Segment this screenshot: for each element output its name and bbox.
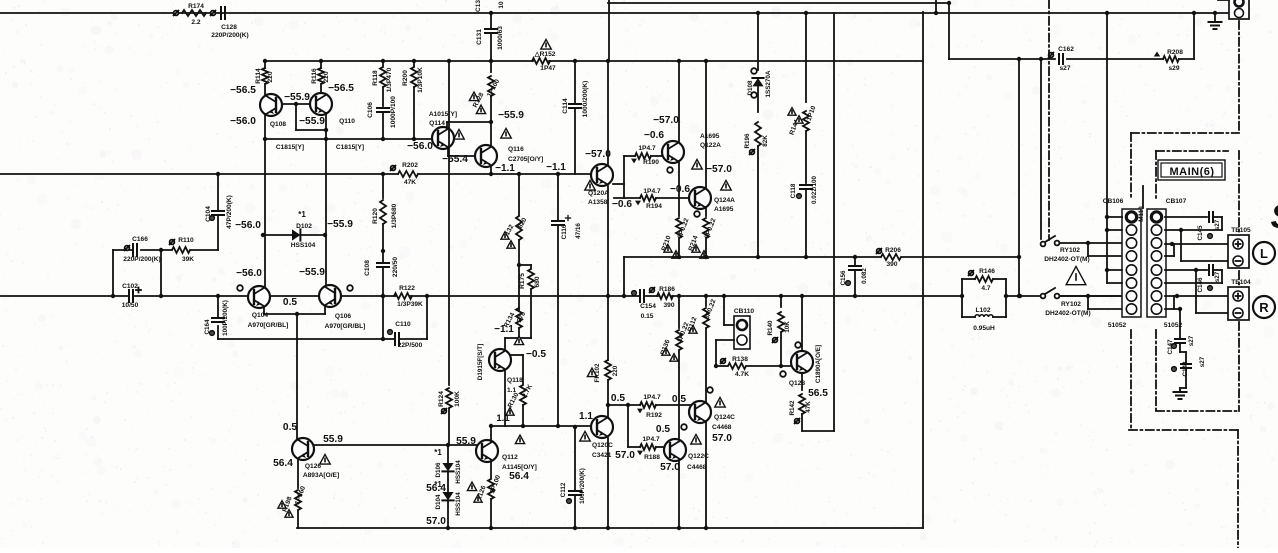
- resistor R208: [1154, 49, 1183, 72]
- wire bottom rail y528: [297, 527, 923, 529]
- label MAIN(6): [1158, 160, 1225, 180]
- transistor Q108: [260, 94, 282, 116]
- resistor R140: [767, 294, 791, 366]
- resistor R120: [372, 174, 398, 253]
- wire x806 col: [804, 11, 808, 102]
- wire r110 right drop: [159, 248, 163, 298]
- label S edge: [1271, 198, 1278, 236]
- svg-text:Q124C: Q124C: [714, 414, 735, 421]
- wire q128 collector: [800, 294, 804, 351]
- svg-text:R146: R146: [979, 268, 995, 275]
- svg-text:Q110: Q110: [339, 118, 355, 125]
- resistor R136: [660, 294, 691, 439]
- svg-text:−56.0: −56.0: [236, 268, 262, 279]
- resistor R110: [170, 237, 195, 263]
- svg-text:R118: R118: [372, 70, 379, 86]
- label -57.0 r190: [653, 115, 679, 126]
- svg-text:56.4: 56.4: [509, 471, 529, 482]
- wire mid rail y61: [265, 60, 923, 62]
- svg-text:Q124A: Q124A: [714, 197, 735, 204]
- label 57.0 r188: [615, 450, 635, 461]
- label D106: [426, 448, 462, 494]
- svg-text:R194: R194: [646, 203, 662, 210]
- svg-text:*1: *1: [298, 210, 306, 219]
- label 1.1 q120c: [579, 411, 593, 422]
- wire q120a emitter: [613, 183, 624, 185]
- terminal L circle: [1253, 242, 1275, 264]
- label -55.9 q106: [299, 267, 325, 278]
- terminal TE104: [1228, 279, 1251, 320]
- svg-text:s27: s27: [1188, 335, 1195, 346]
- node emitter bus: [263, 137, 416, 141]
- svg-text:D1915F[S/T]: D1915F[S/T]: [477, 344, 484, 380]
- marker 0 q122c: [681, 424, 687, 430]
- svg-text:A1145[O/Y]: A1145[O/Y]: [502, 464, 537, 471]
- wire cb107 pin7 row: [1165, 294, 1231, 298]
- transistor Q104: [248, 286, 270, 308]
- label -56.5 right: [328, 83, 354, 94]
- svg-text:R140: R140: [767, 320, 774, 336]
- dash boundary x1237 top: [1238, 21, 1240, 133]
- transistor Q106: [319, 285, 341, 307]
- resistor R114: [255, 59, 274, 94]
- wire riser x610 top: [608, 0, 610, 61]
- svg-text:C112: C112: [560, 482, 567, 497]
- svg-text:100K: 100K: [454, 391, 461, 407]
- relay RY102 upper: [1041, 236, 1060, 246]
- wire riser x923: [922, 12, 924, 528]
- transistor Q128: [791, 351, 813, 373]
- terminal R circle: [1253, 296, 1275, 318]
- svg-text:A893A[O/E]: A893A[O/E]: [303, 472, 339, 479]
- svg-text:390: 390: [886, 261, 897, 268]
- svg-text:HSS104: HSS104: [455, 460, 462, 484]
- capacitor C164: [204, 294, 383, 339]
- svg-text:C128: C128: [221, 24, 237, 31]
- label 1.1 q118e: [496, 413, 510, 424]
- svg-text:HSS104: HSS104: [455, 492, 462, 516]
- svg-text:−56.0: −56.0: [407, 141, 433, 152]
- marker O q106: [347, 285, 353, 291]
- svg-text:A970[GR/BL]: A970[GR/BL]: [325, 323, 366, 330]
- resistor R112: [687, 294, 718, 402]
- label Q120C: [580, 431, 613, 459]
- label -0.6 q120a: [612, 199, 632, 210]
- svg-text:−55.9: −55.9: [284, 92, 310, 103]
- wire fr102 col: [606, 186, 610, 360]
- svg-text:0.5: 0.5: [672, 394, 686, 405]
- resistor FR102: [587, 360, 619, 416]
- svg-text:0.5: 0.5: [283, 297, 297, 308]
- resistor R194: [614, 188, 689, 210]
- svg-text:C145: C145: [1197, 225, 1204, 241]
- svg-text:R122: R122: [399, 285, 415, 292]
- svg-text:Q108: Q108: [270, 121, 286, 128]
- resistor R186: [650, 286, 676, 309]
- svg-text:Q118: Q118: [507, 377, 523, 384]
- svg-text:1/3P470: 1/3P470: [386, 67, 393, 92]
- wire riser x1194: [1193, 13, 1195, 59]
- svg-text:220P/200(K): 220P/200(K): [123, 256, 160, 263]
- svg-text:D106: D106: [435, 462, 442, 478]
- svg-text:−0.6: −0.6: [670, 184, 690, 195]
- label -0.5 q118: [526, 349, 546, 360]
- resistor R192: [606, 394, 690, 419]
- connector top right: [1218, 0, 1249, 19]
- capacitor C118: [790, 175, 818, 259]
- svg-text:C131: C131: [476, 29, 483, 45]
- wire x519 column: [517, 172, 521, 215]
- capacitor C162: [1049, 46, 1075, 72]
- wire q112 collector: [489, 424, 493, 441]
- svg-text:10: 10: [498, 1, 505, 9]
- transistor Q116: [475, 145, 497, 167]
- capacitor C148: [1172, 343, 1206, 390]
- resistor R118: [372, 59, 393, 106]
- capacitor C131: [476, 11, 504, 63]
- svg-text:1SS270A: 1SS270A: [765, 70, 772, 97]
- svg-text:S: S: [1271, 198, 1278, 236]
- label 51052 left: [1108, 322, 1127, 329]
- wire c166 left drop: [111, 250, 115, 298]
- svg-text:TE104: TE104: [1231, 279, 1251, 286]
- svg-text:RY102: RY102: [1060, 247, 1080, 254]
- wire x1107 col: [1105, 11, 1109, 283]
- marker 0 q128c: [795, 342, 801, 348]
- svg-text:−57.0: −57.0: [653, 115, 679, 126]
- svg-text:−55.9: −55.9: [299, 267, 325, 278]
- wire main rail y296 left: [0, 295, 962, 297]
- label 57.0 q122c: [660, 462, 680, 473]
- transistor Q124A: [689, 187, 711, 209]
- resistor R124: [438, 59, 461, 445]
- svg-text:1/3P680: 1/3P680: [391, 203, 398, 228]
- svg-text:1P4.7: 1P4.7: [638, 145, 656, 152]
- label -1.1 right: [546, 162, 566, 173]
- svg-text:−57.0: −57.0: [706, 164, 732, 175]
- resistor R214: [688, 207, 718, 258]
- resistor R210: [661, 161, 691, 258]
- svg-text:−56.0: −56.0: [235, 220, 261, 231]
- svg-text:C156: C156: [840, 270, 847, 286]
- resistor R130: [506, 355, 534, 428]
- svg-text:57.0: 57.0: [712, 433, 732, 444]
- svg-text:1000/63: 1000/63: [497, 26, 504, 50]
- svg-text:C4468: C4468: [687, 464, 707, 471]
- label Q120A: [585, 180, 609, 206]
- svg-text:2.2: 2.2: [191, 19, 200, 26]
- label Q124A: [714, 180, 735, 213]
- label 55.9 q126: [323, 434, 343, 445]
- svg-text:A970[GR/BL]: A970[GR/BL]: [248, 322, 289, 329]
- marker 0 q124c: [707, 387, 713, 393]
- svg-text:1.1: 1.1: [579, 411, 593, 422]
- svg-text:100P/200(K): 100P/200(K): [222, 300, 229, 336]
- wire q128 loop: [802, 430, 834, 432]
- wire q124a collector: [704, 59, 708, 188]
- svg-text:A1695: A1695: [700, 133, 720, 140]
- svg-text:C13: C13: [475, 0, 482, 12]
- capacitor C106: [367, 96, 397, 139]
- resistor R134: [503, 308, 531, 338]
- svg-text:R188: R188: [644, 454, 660, 461]
- svg-text:CB106: CB106: [1103, 198, 1124, 205]
- svg-text:C154: C154: [640, 303, 656, 310]
- label -56.5 left: [230, 85, 256, 96]
- svg-text:56.4: 56.4: [273, 458, 293, 469]
- transistor Q112: [476, 440, 498, 462]
- label -0.6 r190: [644, 130, 664, 141]
- svg-text:0.95uH: 0.95uH: [973, 325, 995, 332]
- svg-text:1P4.7: 1P4.7: [642, 436, 660, 443]
- svg-text:L: L: [1260, 246, 1268, 261]
- svg-text:−0.5: −0.5: [526, 349, 546, 360]
- svg-text:Q116: Q116: [508, 146, 524, 153]
- svg-text:51052: 51052: [1108, 322, 1127, 329]
- dash box MAIN top: [1156, 150, 1228, 152]
- resistor R188: [628, 405, 664, 461]
- wire x1019 col: [1017, 57, 1021, 298]
- wire relay upper feed: [1039, 57, 1043, 239]
- svg-text:R208: R208: [1167, 49, 1183, 56]
- label RY102 lower: [1045, 301, 1090, 317]
- label Q118: [477, 336, 524, 394]
- svg-text:10/50: 10/50: [122, 302, 139, 309]
- dash box MAIN left: [1155, 151, 1157, 411]
- capacitor C104: [205, 174, 233, 250]
- marker O q104: [237, 285, 243, 291]
- wire row y426: [491, 424, 592, 428]
- ground top: [1209, 11, 1222, 29]
- wire M119: [1142, 186, 1144, 208]
- svg-text:R186: R186: [659, 286, 675, 293]
- svg-text:55.9: 55.9: [456, 436, 476, 447]
- label Q122C: [687, 434, 709, 471]
- label 0.5 r188: [656, 424, 670, 435]
- label D104: [426, 480, 477, 527]
- svg-text:1/3P39K: 1/3P39K: [397, 301, 423, 308]
- svg-text:−55.9: −55.9: [498, 110, 524, 121]
- capacitor C102: [122, 283, 141, 309]
- svg-text:RY102: RY102: [1061, 301, 1081, 308]
- wire top rail y13: [0, 12, 1230, 14]
- svg-text:56.5: 56.5: [808, 388, 828, 399]
- wire q118 collector: [505, 338, 519, 349]
- wire q118 emitter: [504, 371, 506, 426]
- svg-text:Q114: Q114: [429, 120, 445, 127]
- resistor R126: [474, 462, 502, 530]
- svg-text:57.0: 57.0: [660, 462, 680, 473]
- svg-text:−57.0: −57.0: [585, 149, 611, 160]
- svg-text:0.5: 0.5: [611, 393, 625, 404]
- svg-text:−56.5: −56.5: [328, 83, 354, 94]
- label -55.4: [442, 154, 468, 165]
- svg-text:R124: R124: [438, 391, 445, 407]
- wire Q110 emitter: [325, 113, 327, 130]
- label -56.0 q104: [236, 268, 262, 279]
- svg-text:MAIN(6): MAIN(6): [1169, 166, 1214, 178]
- svg-text:220/50: 220/50: [392, 257, 399, 278]
- label -57.0 q120a: [585, 149, 611, 160]
- label 55.9 r124: [456, 436, 476, 447]
- wire main rail y296 right: [1006, 295, 1122, 297]
- capacitor C166: [123, 236, 160, 263]
- svg-text:R174: R174: [188, 3, 204, 10]
- terminal TE105: [1228, 227, 1251, 268]
- svg-text:C114: C114: [562, 98, 569, 114]
- wire x558 drop: [556, 172, 560, 426]
- wire q120a collector: [606, 59, 610, 164]
- capacitor C128: [211, 7, 249, 39]
- diode D102: [261, 229, 327, 240]
- label Q114: [429, 111, 464, 139]
- label 51052 right: [1164, 322, 1183, 329]
- marker 0 q124a: [694, 211, 700, 217]
- svg-text:s27: s27: [1199, 356, 1206, 367]
- svg-text:100P/200(K): 100P/200(K): [579, 468, 586, 504]
- resistor R190: [624, 145, 662, 166]
- svg-text:55.9: 55.9: [323, 434, 343, 445]
- label -55.9 r128: [498, 110, 524, 121]
- svg-text:10K: 10K: [784, 321, 791, 333]
- svg-text:HSS104: HSS104: [291, 242, 316, 249]
- dash boundary y430: [1129, 429, 1238, 431]
- svg-text:C116: C116: [561, 224, 568, 239]
- svg-text:R192: R192: [646, 412, 662, 419]
- svg-text:390: 390: [663, 302, 674, 309]
- wire q106 base drop: [325, 235, 327, 286]
- svg-text:0.5: 0.5: [283, 422, 297, 433]
- svg-text:R190: R190: [643, 159, 659, 166]
- wire q118 base: [511, 354, 523, 356]
- svg-text:R120: R120: [372, 208, 379, 224]
- transistor Q120A: [591, 164, 613, 186]
- capacitor C116: [552, 216, 582, 240]
- label -1.1 q118: [494, 324, 514, 335]
- svg-text:57.0: 57.0: [615, 450, 635, 461]
- label Q128: [789, 345, 828, 399]
- label Q108: [270, 121, 304, 151]
- svg-text:4.7: 4.7: [981, 285, 990, 292]
- node riser x949 top: [947, 1, 951, 5]
- label Q104: [248, 312, 289, 329]
- svg-text:−55.9: −55.9: [299, 116, 325, 127]
- svg-text:C2705[O/Y]: C2705[O/Y]: [508, 156, 543, 163]
- svg-text:220: 220: [267, 71, 274, 82]
- svg-text:R114: R114: [255, 68, 262, 84]
- wire cb106 pin5 stub: [1105, 268, 1122, 272]
- svg-text:R138: R138: [732, 356, 748, 363]
- svg-text:47K: 47K: [805, 401, 812, 413]
- svg-text:1.1: 1.1: [496, 413, 510, 424]
- svg-text:C146: C146: [1197, 277, 1204, 293]
- svg-text:*1: *1: [434, 448, 442, 457]
- capacitor C145: [1197, 212, 1222, 241]
- svg-text:220: 220: [612, 365, 619, 376]
- label 0.5 q104: [283, 297, 297, 308]
- dash box MAIN right: [1238, 151, 1240, 411]
- label 0.5 r192a: [611, 393, 625, 404]
- wire x519 lower: [518, 265, 520, 310]
- wire mid rail y59 right: [949, 58, 1194, 60]
- svg-text:C1815[Y]: C1815[Y]: [336, 144, 364, 151]
- svg-text:A1358: A1358: [588, 199, 608, 206]
- wire q106 emitter: [324, 307, 326, 314]
- transistor Q114: [432, 127, 454, 149]
- svg-text:CB110: CB110: [734, 308, 754, 315]
- capacitor C114: [562, 59, 589, 174]
- svg-text:R196: R196: [744, 133, 751, 149]
- transistor Q124C: [689, 401, 711, 423]
- label -56.0 q114: [407, 141, 433, 152]
- svg-text:C108: C108: [364, 260, 371, 276]
- ground C148: [1174, 390, 1187, 399]
- resistor R198: [278, 460, 307, 528]
- wire cb106 pin2 stub: [1105, 228, 1122, 232]
- label 56.4 q126: [273, 458, 293, 469]
- svg-text:s29: s29: [1168, 65, 1179, 72]
- svg-text:1000P/100: 1000P/100: [390, 96, 397, 128]
- svg-text:−1.1: −1.1: [546, 162, 566, 173]
- svg-text:C102: C102: [122, 283, 138, 290]
- warning triangle relays: [1066, 266, 1086, 284]
- svg-text:DH2402-OT(M): DH2402-OT(M): [1044, 256, 1089, 263]
- resistor R122: [394, 285, 429, 308]
- transistor Q120C: [591, 416, 613, 438]
- wire d102 left drop: [264, 139, 266, 235]
- resistor R128: [469, 61, 501, 145]
- transistor Q110: [310, 93, 332, 115]
- svg-text:s27: s27: [1214, 271, 1221, 282]
- inductor L102: [962, 296, 1006, 332]
- svg-text:47P/200(K): 47P/200(K): [226, 195, 233, 229]
- wire d102 right drop: [325, 130, 327, 235]
- svg-text:1P4.7: 1P4.7: [643, 188, 661, 195]
- svg-text:DH2402-OT(M): DH2402-OT(M): [1045, 310, 1090, 317]
- svg-text:L102: L102: [975, 307, 990, 314]
- resistor R202: [216, 162, 418, 186]
- svg-text:Q112: Q112: [502, 454, 518, 461]
- wire q120c emitter: [606, 438, 610, 530]
- svg-text:Q122A: Q122A: [700, 142, 721, 149]
- svg-text:R200: R200: [402, 70, 409, 86]
- svg-text:47K: 47K: [404, 179, 416, 186]
- resistor R152: [532, 39, 556, 72]
- resistor R146: [962, 268, 1006, 296]
- node y257 x1019: [1017, 255, 1021, 259]
- resistor R132: [501, 216, 529, 265]
- label -55.9 mid: [284, 92, 310, 103]
- capacitor C156: [840, 255, 868, 298]
- wire Q114 emitter elbow: [448, 149, 476, 156]
- svg-text:0.15: 0.15: [641, 313, 654, 320]
- svg-text:C166: C166: [132, 236, 148, 243]
- svg-text:C118: C118: [790, 183, 797, 198]
- svg-text:220P/200(K): 220P/200(K): [211, 32, 248, 39]
- svg-text:R116: R116: [311, 68, 318, 84]
- svg-text:C1890A[O/E]: C1890A[O/E]: [815, 345, 822, 383]
- capacitor C110: [381, 294, 427, 349]
- wire rail y257: [622, 257, 1019, 298]
- label D102: [235, 210, 353, 249]
- svg-text:R142: R142: [789, 400, 796, 416]
- wire cb106 pin6 stub: [1107, 282, 1122, 284]
- svg-text:−56.5: −56.5: [230, 85, 256, 96]
- svg-text:C110: C110: [395, 321, 411, 328]
- label -1.1 left: [495, 163, 515, 174]
- wire q126 base row: [315, 443, 477, 447]
- resistor R200: [402, 59, 424, 139]
